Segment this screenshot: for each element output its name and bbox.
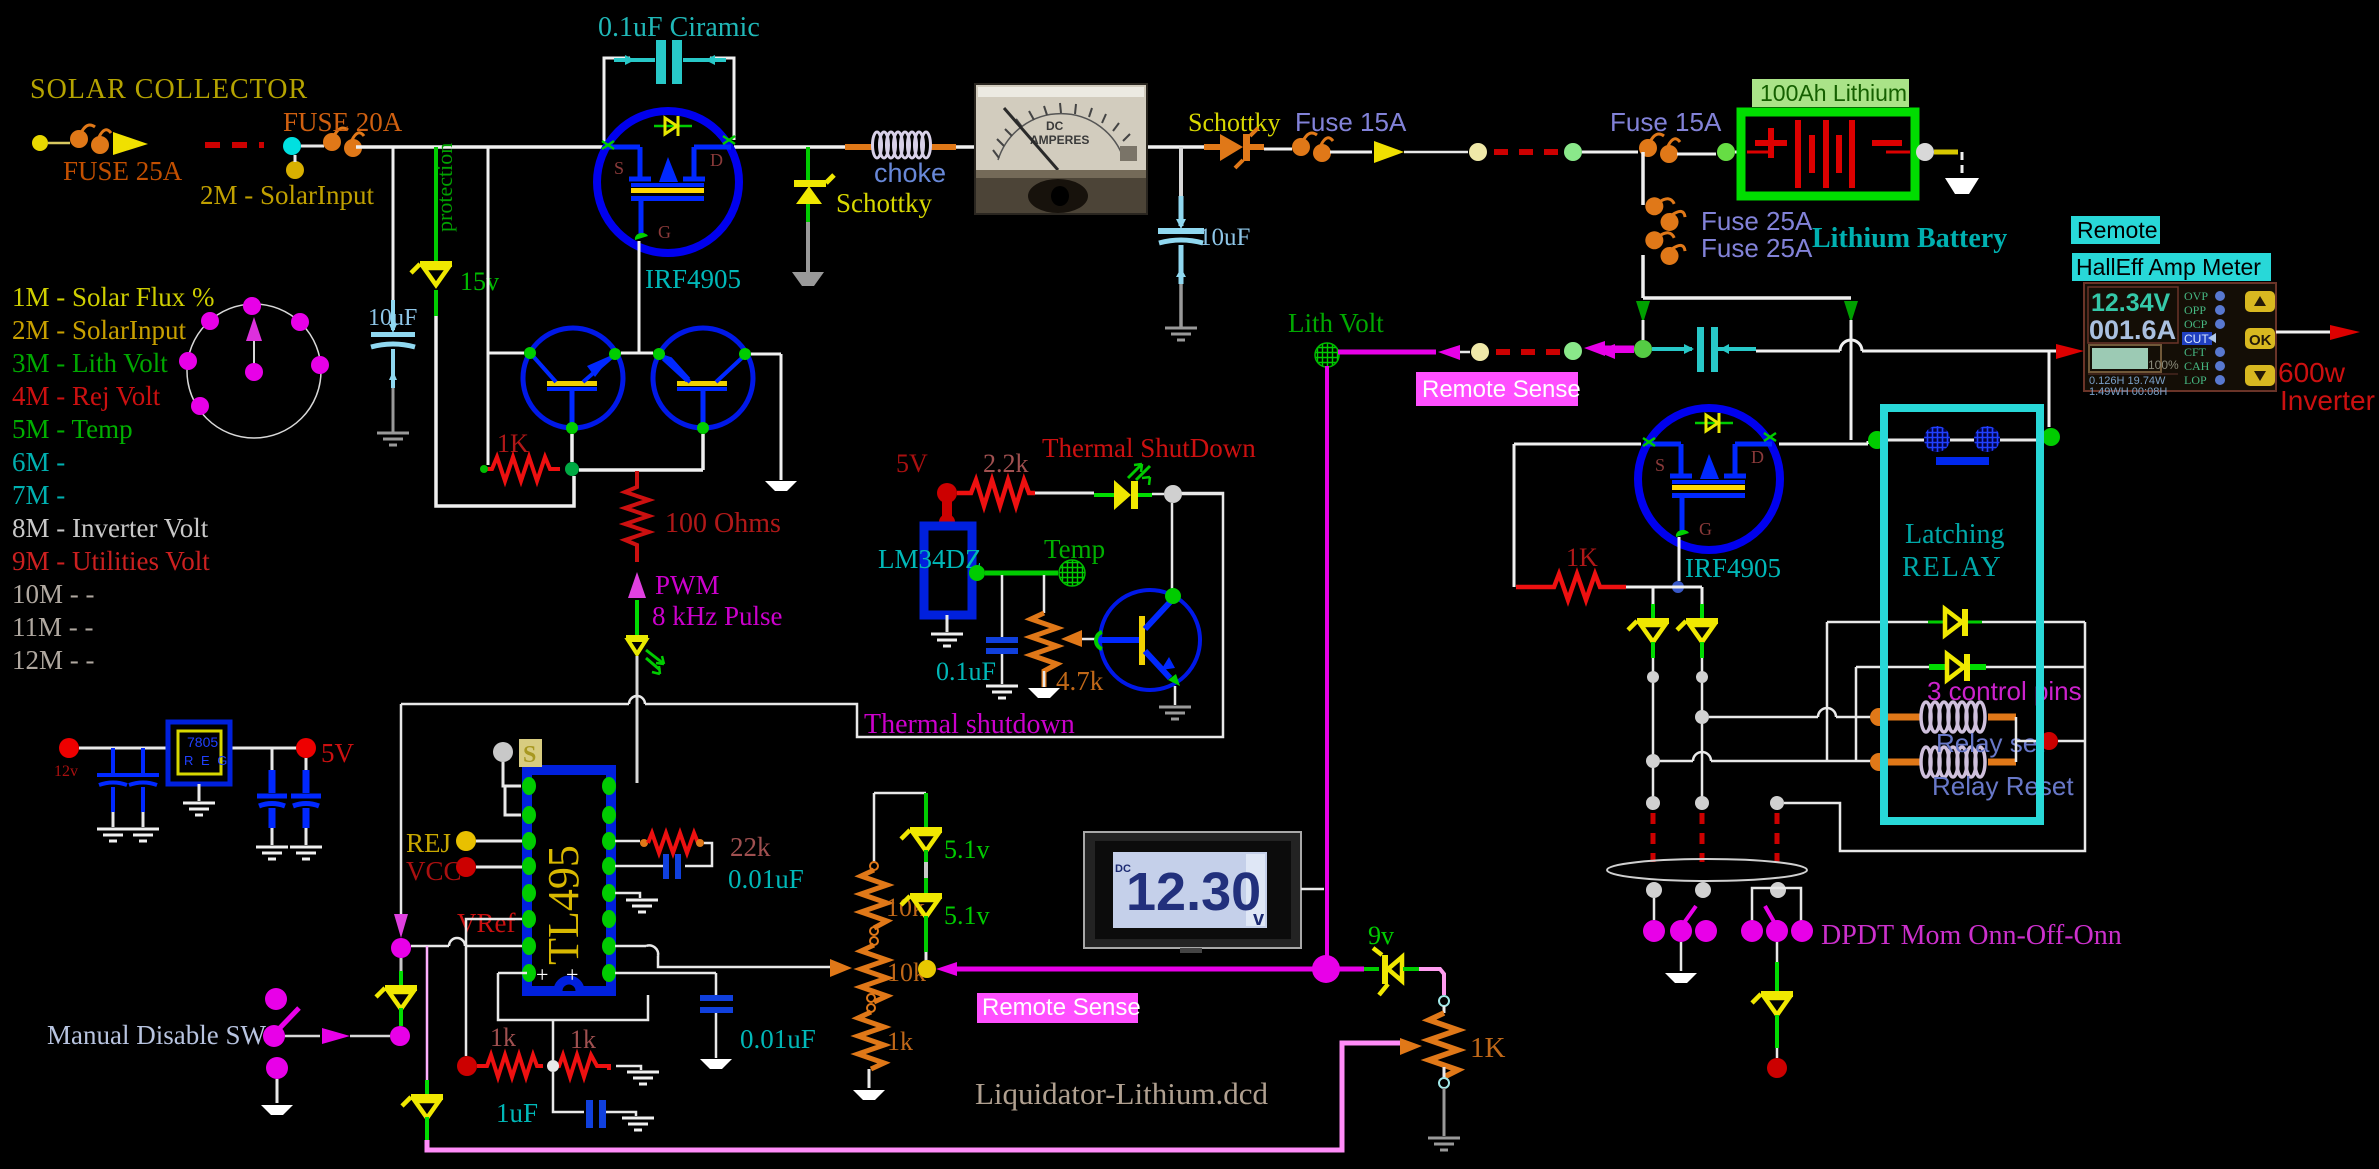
svg-text:choke: choke <box>874 158 946 188</box>
svg-text:15v: 15v <box>460 267 499 296</box>
node cyan solar input <box>283 137 301 155</box>
switch SW1 manual disable <box>265 988 287 1010</box>
node VRef red <box>457 1056 477 1076</box>
inductor L1 choke <box>845 144 872 150</box>
meter M1 DC Amperes (photo) <box>974 83 1148 215</box>
svg-text:+: + <box>536 962 548 987</box>
node relay out green <box>2042 428 2060 446</box>
wire red dashed dpdt <box>1653 813 1777 862</box>
wire meter out <box>2276 331 2330 334</box>
label Remote <box>2071 216 2160 244</box>
svg-text:LM34DZ: LM34DZ <box>878 544 982 574</box>
resistor R8 10k <box>870 862 878 870</box>
transistor Q1 <box>523 328 623 428</box>
relay box border overlay <box>1884 408 2040 821</box>
svg-text:FUSE 25A: FUSE 25A <box>63 156 183 186</box>
node yellow remote sense <box>918 960 936 978</box>
svg-text:VCC: VCC <box>406 856 462 886</box>
resistor R10 1k <box>867 1004 875 1012</box>
wire relay reset row <box>1660 760 1874 763</box>
label 100Ah Lithium <box>1752 79 1909 107</box>
svg-text:3M - Lith Volt: 3M - Lith Volt <box>12 348 168 378</box>
capacitor C11 1uF <box>553 1072 584 1112</box>
node Temp tap <box>1059 560 1085 586</box>
node emitter junction <box>565 462 579 476</box>
wire Q1 base / Q1C-Q2B / Q2C <box>488 353 781 480</box>
wire to 10uF <box>392 147 395 300</box>
relay contacts <box>1886 439 2040 442</box>
node cream <box>1469 143 1487 161</box>
svg-text:Remote Sense: Remote Sense <box>982 994 1141 1021</box>
zener D1 15v <box>411 261 452 285</box>
svg-text:001.6A: 001.6A <box>2089 315 2176 345</box>
svg-text:DPDT Mom Onn-Off-Onn: DPDT Mom Onn-Off-Onn <box>1821 920 2122 951</box>
wire gate of Q0 down <box>638 241 641 353</box>
divider chain top bracket <box>874 793 926 862</box>
svg-text:OPP: OPP <box>2184 303 2206 317</box>
svg-text:SOLAR COLLECTOR: SOLAR COLLECTOR <box>30 74 308 105</box>
wire battery bus down <box>1643 296 1851 300</box>
arrow red to meter <box>2056 344 2084 359</box>
zener D13 dpdt <box>1776 942 1779 962</box>
svg-text:CFT: CFT <box>2184 345 2207 359</box>
svg-text:12.30: 12.30 <box>1126 862 1261 922</box>
node battery junction green <box>1634 340 1652 358</box>
meter M2 HallEff (photo) <box>2084 283 2276 398</box>
dpdt left contacts <box>1653 898 1656 920</box>
svg-text:+: + <box>566 962 578 987</box>
relay box Latching RELAY <box>1884 408 2040 821</box>
node gate junction <box>1672 581 1684 593</box>
wire to halleff meter <box>1756 351 2056 427</box>
svg-text:IRF4905: IRF4905 <box>645 264 741 294</box>
svg-text:9M - Utilities Volt: 9M - Utilities Volt <box>12 546 210 576</box>
svg-text:FUSE 20A: FUSE 20A <box>283 107 403 137</box>
dpdt right contacts <box>1752 888 1801 925</box>
svg-text:Thermal shutdown: Thermal shutdown <box>864 709 1075 740</box>
wire magenta stub to remote sense <box>1615 349 1634 353</box>
battery B1 Lithium <box>1741 112 1915 196</box>
led D7 thermal <box>1094 493 1114 497</box>
wire pink to pot <box>1419 969 1444 995</box>
svg-text:OK: OK <box>2249 332 2272 349</box>
arrow magenta VRef in <box>394 914 408 938</box>
svg-text:Liquidator-Lithium.dcd: Liquidator-Lithium.dcd <box>975 1076 1268 1111</box>
tag S shutdown <box>519 739 542 767</box>
svg-text:S: S <box>523 742 536 768</box>
wire junction up to bracket <box>552 1020 555 1060</box>
svg-text:11M - -: 11M - - <box>12 612 94 642</box>
svg-text:0.1uF Ciramic: 0.1uF Ciramic <box>598 12 760 43</box>
svg-text:TL495: TL495 <box>539 845 588 965</box>
svg-text:10uF: 10uF <box>1199 224 1250 251</box>
wire relay set row <box>1709 716 1872 719</box>
zener D9 D10 gate clamp <box>1652 587 1655 604</box>
wire pin6 VRef vertical <box>466 919 522 1056</box>
resistor R11 1K pot <box>1429 1013 1458 1077</box>
svg-text:1M - Solar Flux %: 1M - Solar Flux % <box>12 282 215 312</box>
svg-text:100%: 100% <box>2148 358 2179 372</box>
node 5V thermal <box>937 483 957 503</box>
wire magenta lith volt vertical <box>1325 366 1329 966</box>
wire 0.1uF loop <box>604 58 734 143</box>
svg-text:100 Ohms: 100 Ohms <box>665 508 781 539</box>
resistor R3 22k <box>615 840 640 843</box>
node VCC <box>456 857 476 877</box>
transistor Q2 <box>653 328 753 428</box>
regulator U2 12v-7805-5V <box>59 738 79 758</box>
fuse F5 F6 25A vertical pair <box>1641 152 1645 205</box>
svg-text:0.1uF: 0.1uF <box>936 657 996 686</box>
wire main top <box>356 145 974 149</box>
svg-text:1uF: 1uF <box>496 1098 538 1128</box>
wire diode2 drop <box>1855 667 1858 761</box>
relay coil reset <box>1884 759 1922 766</box>
svg-text:1k: 1k <box>570 1025 596 1054</box>
transistor Q0 MOSFET IRF4905 <box>597 111 739 253</box>
diode D2 Schottky to ground <box>806 147 810 182</box>
wire remote sense magenta <box>936 962 957 976</box>
svg-text:OVP: OVP <box>2184 289 2208 303</box>
transistor Q3 thermal <box>1100 590 1200 690</box>
led D4 PWM <box>635 600 639 638</box>
node REJ <box>456 831 476 851</box>
label Remote Sense 2 <box>977 993 1138 1023</box>
wire clamp verticals <box>1653 658 1702 797</box>
ground pin5 <box>615 893 640 898</box>
svg-text:4.7k: 4.7k <box>1056 666 1104 696</box>
node red relay <box>2040 732 2058 750</box>
svg-text:1.49WH 00:08H: 1.49WH 00:08H <box>2089 386 2167 398</box>
svg-text:Lithium Battery: Lithium Battery <box>1812 223 2007 254</box>
svg-text:Fuse 25A: Fuse 25A <box>1701 206 1813 236</box>
svg-text:6M -: 6M - <box>12 447 65 477</box>
node remote sense junction <box>1312 955 1340 983</box>
zener D5 manual disable <box>400 958 403 971</box>
svg-text:Relay Reset: Relay Reset <box>1932 771 2074 801</box>
zener D6 <box>402 1094 443 1118</box>
wire remote sense row <box>1338 350 1436 355</box>
node green battery <box>1717 143 1735 161</box>
svg-text:5M - Temp: 5M - Temp <box>12 414 133 444</box>
svg-text:8 kHz Pulse: 8 kHz Pulse <box>652 601 783 631</box>
wire pink shutdown column <box>426 946 429 1080</box>
wire red dashed <box>1494 149 1562 155</box>
label HallEff Amp Meter <box>2072 253 2271 281</box>
svg-text:REJ: REJ <box>406 828 451 858</box>
wire diode1 drop <box>1826 622 1829 761</box>
svg-text:5.1v: 5.1v <box>944 901 990 930</box>
dpdt ellipse bar <box>1607 859 1807 881</box>
svg-text:1K: 1K <box>1470 1032 1506 1064</box>
svg-text:Remote: Remote <box>2077 217 2158 243</box>
capacitor C9 0.01uF <box>685 843 712 866</box>
svg-text:5V: 5V <box>896 449 928 478</box>
node green LM34 out <box>969 565 985 581</box>
wire red dashed solar input <box>205 142 264 148</box>
svg-text:10M - -: 10M - - <box>12 579 95 609</box>
wire voltmeter to sense line <box>1301 888 1324 891</box>
wire junction down to 10uF <box>1179 147 1183 196</box>
svg-text:Fuse 25A: Fuse 25A <box>1701 233 1813 263</box>
capacitor C10 0.01uF bottom <box>715 973 718 995</box>
svg-text:12M - -: 12M - - <box>12 645 95 675</box>
capacitor C3 10uF <box>1179 196 1184 226</box>
svg-text:2M - SolarInput: 2M - SolarInput <box>200 180 374 210</box>
wire meter to schottky <box>1148 145 1212 149</box>
node 5V <box>296 738 316 758</box>
svg-text:Manual Disable SW: Manual Disable SW <box>47 1020 266 1050</box>
arrow PWM <box>628 572 646 598</box>
svg-text:Schottky: Schottky <box>836 188 933 218</box>
node battery minus <box>1916 143 1934 161</box>
svg-text:IRF4905: IRF4905 <box>1685 553 1781 583</box>
DPDT switch group <box>1646 796 1660 810</box>
IC U1 TL495 <box>527 770 611 991</box>
svg-text:DC: DC <box>1046 119 1064 133</box>
resistor R7 4.7k <box>1043 575 1046 613</box>
dial gauge <box>187 304 321 438</box>
svg-text:AMPERES: AMPERES <box>1030 133 1089 147</box>
svg-text:12.34V: 12.34V <box>2091 289 2171 317</box>
svg-text:22k: 22k <box>730 832 771 862</box>
wire feedback row y=704 <box>401 493 1223 737</box>
resistor R2 100 Ohms <box>625 471 649 562</box>
svg-text:protection: protection <box>432 143 457 232</box>
label Remote Sense 1 <box>1416 372 1578 406</box>
dpdt pole dots <box>1646 882 1662 898</box>
svg-text:PWM: PWM <box>655 570 720 600</box>
wire pin7R to wiper <box>615 946 830 967</box>
fuse F1 FUSE 25A <box>32 135 48 151</box>
svg-text:9v: 9v <box>1368 921 1394 950</box>
svg-text:5.1v: 5.1v <box>944 835 990 864</box>
wire protection zener line <box>434 147 438 264</box>
node red dpdt <box>1767 1058 1787 1078</box>
wire Q4 drain to relay <box>1779 441 1868 444</box>
svg-text:100Ah Lithium: 100Ah Lithium <box>1760 80 1907 106</box>
svg-text:R E G: R E G <box>184 753 229 768</box>
svg-text:7M -: 7M - <box>12 480 65 510</box>
resistor R9 10k pot <box>870 937 878 945</box>
svg-text:2.2k: 2.2k <box>983 449 1029 478</box>
transistor Q4 MOSFET IRF4905 right <box>1638 408 1780 550</box>
wire protection to emitter <box>436 316 574 506</box>
svg-text:OCP: OCP <box>2184 317 2208 331</box>
wire right return bus <box>1784 622 2085 851</box>
fuse F2 FUSE 20A <box>323 128 364 157</box>
svg-text:LOP: LOP <box>2184 373 2207 387</box>
node green <box>1564 143 1582 161</box>
diode D12 relay <box>1856 666 1929 669</box>
svg-text:1K: 1K <box>1566 543 1598 572</box>
wire pin8R and bottom bracket <box>498 973 716 1020</box>
wire pin7 with hop <box>411 945 527 948</box>
node magenta pin7 <box>391 938 411 958</box>
svg-text:600w: 600w <box>2278 357 2346 388</box>
svg-text:DC: DC <box>1115 863 1131 875</box>
capacitor C7 C8 output caps <box>272 748 306 770</box>
svg-text:7805: 7805 <box>187 734 218 750</box>
relay coil set <box>1872 714 1922 721</box>
diode D11 relay <box>1827 621 1928 624</box>
wire pink bottom bus <box>427 1043 1400 1150</box>
svg-text:CAH: CAH <box>2184 359 2210 373</box>
meter M3 voltmeter 12.30 (photo) <box>1084 832 1301 953</box>
svg-text:0.01uF: 0.01uF <box>740 1024 816 1054</box>
node relay in green <box>1868 431 1886 449</box>
svg-text:HallEff Amp Meter: HallEff Amp Meter <box>2076 254 2261 280</box>
node Lith Volt tap <box>1315 343 1339 367</box>
wire coil rights to red node <box>2016 717 2040 762</box>
svg-text:4M - Rej Volt: 4M - Rej Volt <box>12 381 161 411</box>
labels meter channel list <box>12 282 215 675</box>
svg-text:Thermal ShutDown: Thermal ShutDown <box>1042 433 1256 463</box>
node 2M SolarInput <box>286 161 304 179</box>
svg-text:Inverter: Inverter <box>2280 385 2375 416</box>
svg-text:Remote Sense: Remote Sense <box>1422 376 1581 403</box>
svg-text:1k: 1k <box>490 1023 516 1052</box>
svg-text:5V: 5V <box>321 738 355 768</box>
wire left vertical to transistor base <box>487 147 490 465</box>
svg-text:Fuse 15A: Fuse 15A <box>1610 107 1722 137</box>
capacitor C4 coupling <box>1652 347 1692 351</box>
svg-text:Lith Volt: Lith Volt <box>1288 308 1384 338</box>
svg-text:CUT: CUT <box>2184 332 2209 346</box>
svg-text:v: v <box>1253 908 1265 930</box>
node magenta manual sw <box>390 1026 410 1046</box>
capacitor C12 0.1uF thermal <box>1001 575 1004 637</box>
svg-text:1k: 1k <box>887 1027 913 1056</box>
svg-text:8M - Inverter Volt: 8M - Inverter Volt <box>12 513 209 543</box>
svg-text:Latching: Latching <box>1905 519 2005 550</box>
svg-text:Relay set: Relay set <box>1936 728 2045 758</box>
svg-text:0.01uF: 0.01uF <box>728 864 804 894</box>
svg-text:12v: 12v <box>54 763 78 780</box>
node grey thermal <box>1164 485 1182 503</box>
wire Q4 source left <box>1514 444 1641 587</box>
capacitor C5 C6 input caps <box>97 748 159 812</box>
svg-text:RELAY: RELAY <box>1902 552 2003 583</box>
svg-text:Schottky: Schottky <box>1188 108 1280 137</box>
svg-text:Temp: Temp <box>1044 534 1105 564</box>
IC U3 LM34DZ <box>924 526 972 615</box>
arrow red to inverter <box>2330 325 2360 340</box>
svg-text:2M - SolarInput: 2M - SolarInput <box>12 315 186 345</box>
zener column 5.1v x2 <box>924 793 928 828</box>
